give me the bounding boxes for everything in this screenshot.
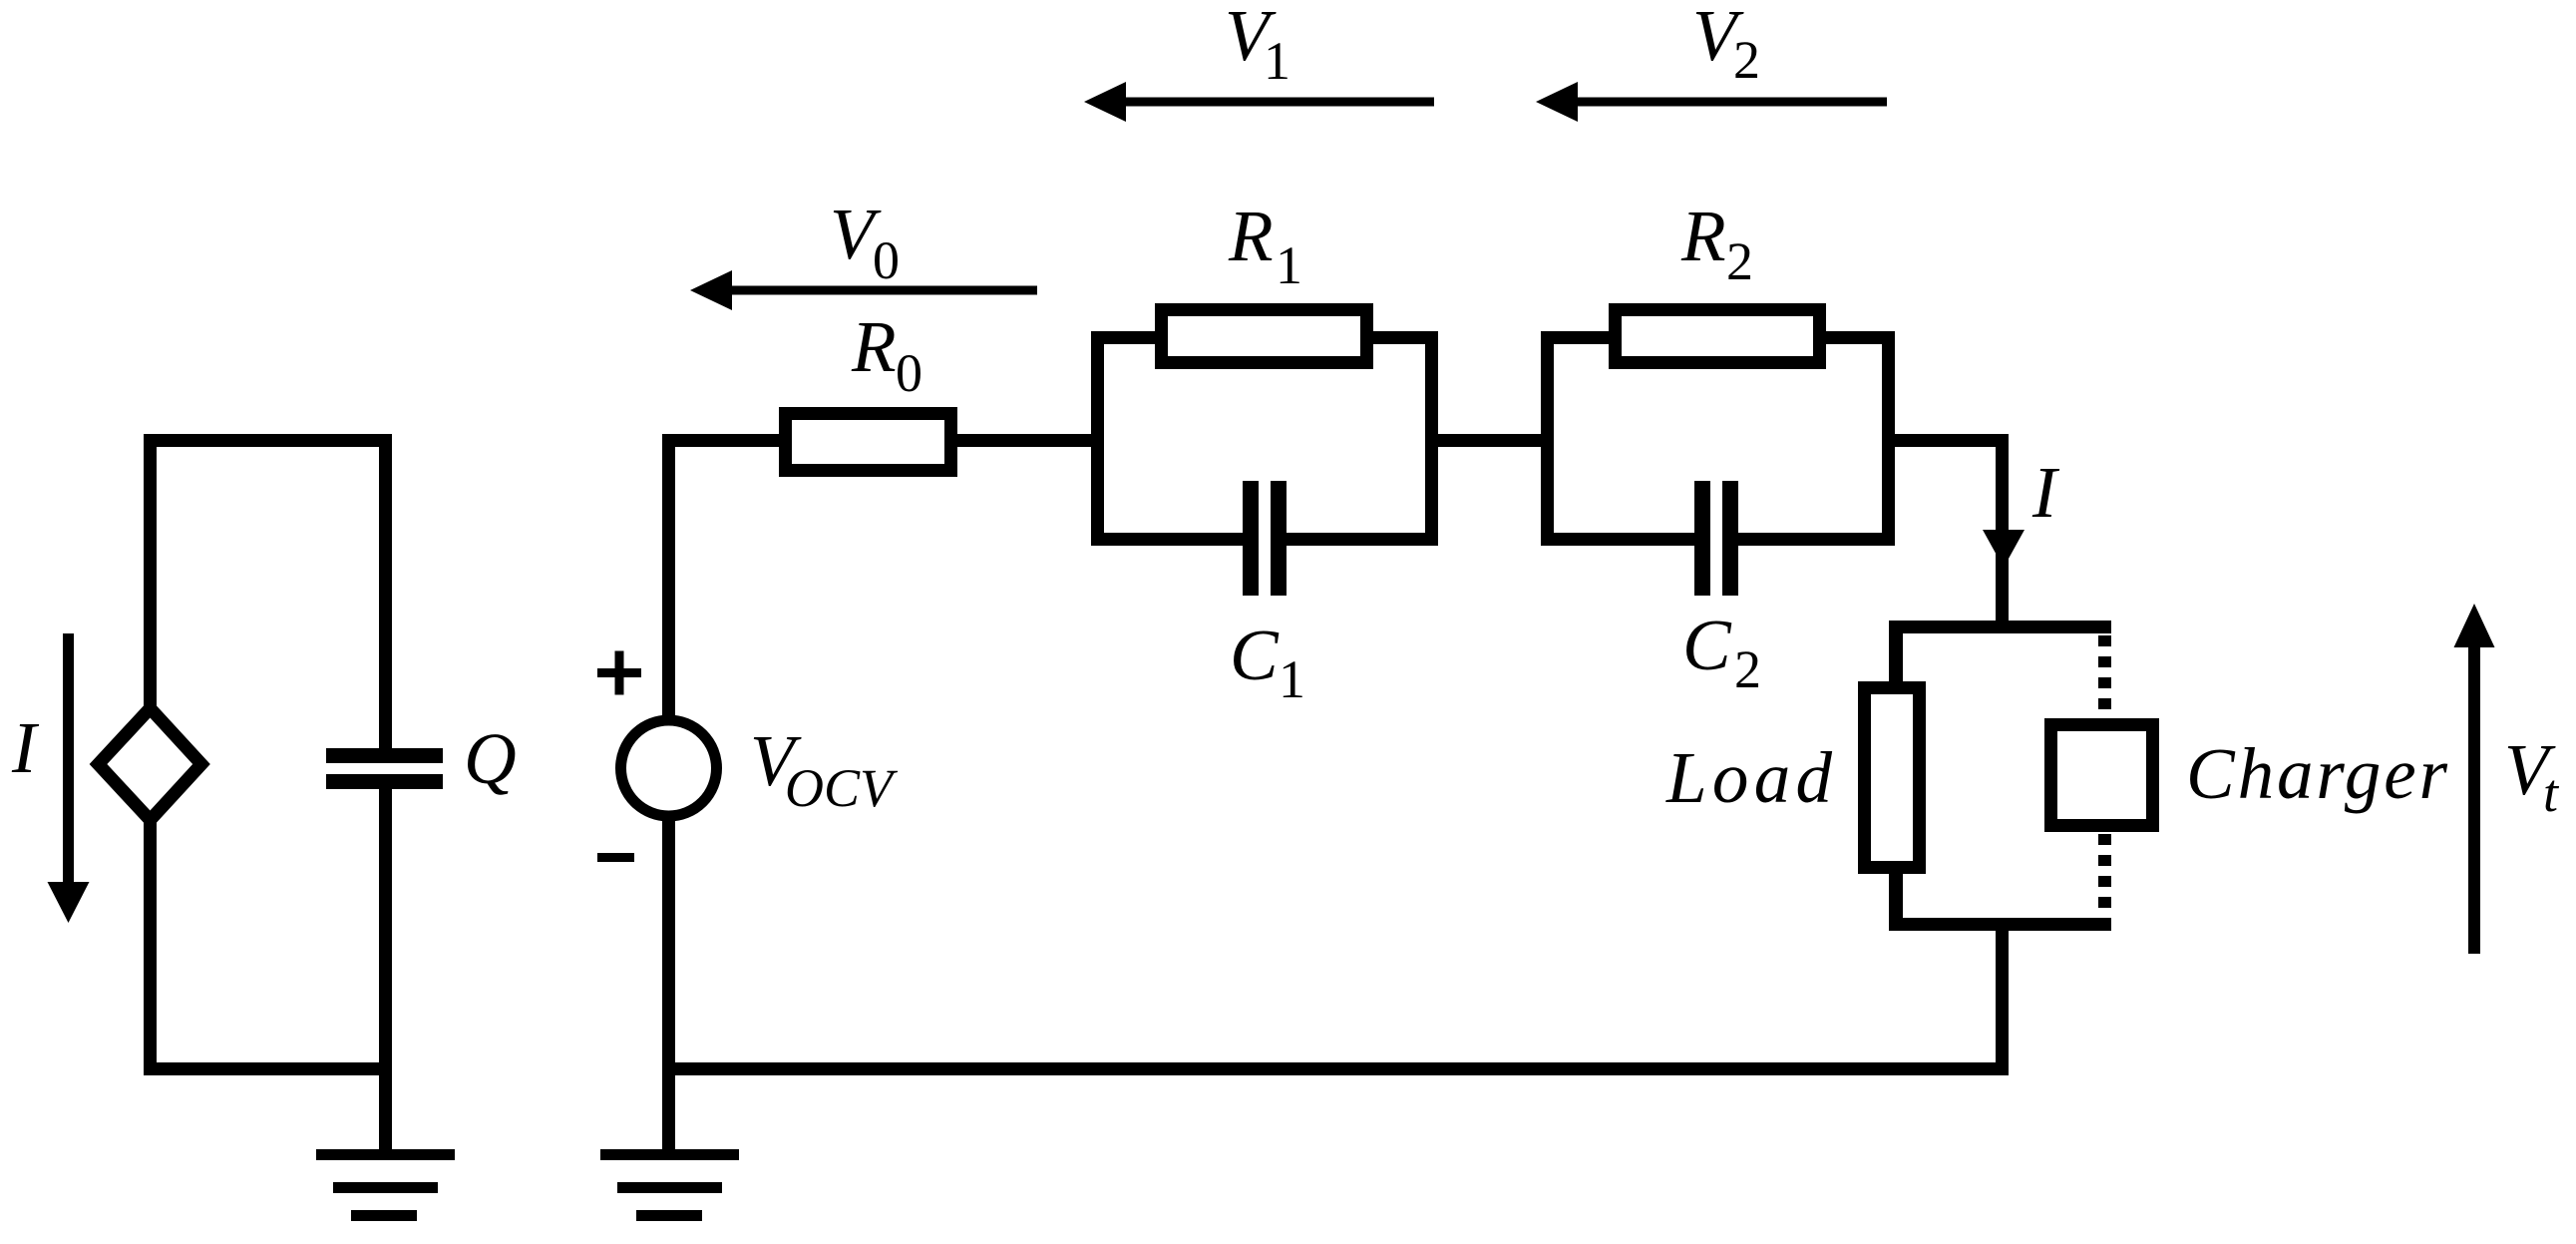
arrow Vt (upward) bbox=[2454, 604, 2495, 954]
label V0 bbox=[830, 194, 900, 290]
arrow V2 bbox=[1536, 82, 1887, 122]
svg-text:1: 1 bbox=[1279, 649, 1305, 709]
resistor R2 bbox=[1616, 310, 1820, 363]
Charger box bbox=[2051, 725, 2153, 826]
wire: R1 to R2 bbox=[1438, 434, 1541, 447]
Load resistor box bbox=[1865, 688, 1920, 868]
wire: R1 right rail bbox=[1425, 331, 1438, 546]
current arrow I (left, downward) bbox=[48, 633, 90, 923]
svg-text:I: I bbox=[11, 707, 40, 788]
label V1 bbox=[1225, 0, 1290, 91]
wire: left block bottom bbox=[144, 1062, 392, 1075]
svg-text:R: R bbox=[1680, 196, 1726, 276]
resistor R1 bbox=[1162, 310, 1367, 363]
voltage source Vocv (circle) bbox=[621, 720, 717, 816]
label R0 bbox=[851, 306, 922, 403]
wire: R2 right rail bbox=[1882, 331, 1895, 546]
wire: Vocv to R0 bbox=[662, 434, 779, 447]
wire: R0 to R1 block bbox=[957, 434, 1091, 447]
dependent current source (diamond) bbox=[99, 708, 202, 820]
wire: R2 bottom-right link bbox=[1738, 533, 1895, 546]
label C2 bbox=[1682, 605, 1761, 699]
svg-text:R: R bbox=[851, 306, 897, 387]
load group bottom wire bbox=[1889, 918, 2111, 931]
ground (below Vocv) bbox=[600, 1149, 739, 1221]
wire: R2 top-left link bbox=[1541, 331, 1611, 344]
wire: Q branch upper rail bbox=[379, 434, 392, 748]
wire: load stub bottom bbox=[1889, 874, 1903, 918]
capacitor C1 plates bbox=[1243, 481, 1287, 596]
label V2 bbox=[1692, 0, 1760, 90]
wire: main bottom bbox=[662, 1062, 2009, 1075]
arrow V0 bbox=[690, 270, 1037, 310]
wire: Q branch lower rail bbox=[379, 789, 392, 1151]
svg-text:I: I bbox=[2031, 452, 2060, 533]
svg-text:2: 2 bbox=[1726, 231, 1753, 291]
wire: Vocv top bbox=[662, 434, 675, 721]
label R2 bbox=[1680, 196, 1753, 291]
label C1 bbox=[1230, 615, 1305, 709]
dashed wire from charger (bottom) bbox=[2098, 834, 2111, 918]
svg-text:0: 0 bbox=[873, 230, 900, 290]
minus sign bbox=[597, 853, 634, 862]
wire: below load group bbox=[1996, 931, 2009, 1075]
current arrowhead I (on output wire) bbox=[1983, 530, 2024, 568]
wire: R2 top-right link bbox=[1820, 331, 1895, 344]
wire: R2 to output corner bbox=[1895, 434, 2009, 447]
wire: output corner down bbox=[1996, 434, 2009, 633]
capacitor C2 plates bbox=[1694, 481, 1738, 596]
plus sign bbox=[597, 651, 641, 695]
svg-text:1: 1 bbox=[1264, 31, 1290, 91]
wire: R1 left rail bbox=[1091, 331, 1104, 546]
label Vt bbox=[2504, 729, 2560, 823]
svg-text:2: 2 bbox=[1734, 639, 1761, 699]
arrow V1 bbox=[1084, 82, 1434, 122]
load group top wire bbox=[1889, 621, 2111, 633]
svg-text:1: 1 bbox=[1276, 235, 1302, 295]
wire: R1 top-left link bbox=[1091, 331, 1161, 344]
wire: Vocv bottom bbox=[662, 815, 675, 1151]
svg-text:2: 2 bbox=[1733, 30, 1760, 90]
svg-text:OCV: OCV bbox=[785, 758, 899, 818]
capacitor Q bottom plate bbox=[326, 774, 443, 789]
svg-text:Charger: Charger bbox=[2186, 733, 2448, 814]
wire: R1 bottom-left link bbox=[1091, 533, 1243, 546]
wire: R2 bottom-left link bbox=[1541, 533, 1694, 546]
svg-text:R: R bbox=[1228, 196, 1274, 276]
label Vocv bbox=[750, 720, 899, 818]
wire: left block top bbox=[144, 434, 392, 447]
svg-text:C: C bbox=[1230, 615, 1280, 695]
svg-text:C: C bbox=[1682, 605, 1732, 685]
label R1 bbox=[1228, 196, 1302, 295]
svg-text:Q: Q bbox=[464, 718, 517, 799]
wire: left block left rail bbox=[144, 434, 157, 706]
resistor R0 bbox=[786, 414, 951, 471]
wire: load stub top bbox=[1889, 633, 1903, 681]
svg-text:t: t bbox=[2543, 763, 2560, 823]
wire: R1 top-right link bbox=[1367, 331, 1438, 344]
wire: R2 left rail bbox=[1541, 331, 1554, 546]
wire: R1 bottom-right link bbox=[1287, 533, 1438, 546]
ground (left, below Q branch) bbox=[316, 1149, 455, 1221]
capacitor Q top plate bbox=[326, 748, 443, 763]
dashed wire to charger (top) bbox=[2098, 635, 2111, 720]
wire: below diamond bbox=[144, 822, 157, 1075]
svg-text:0: 0 bbox=[896, 343, 922, 403]
